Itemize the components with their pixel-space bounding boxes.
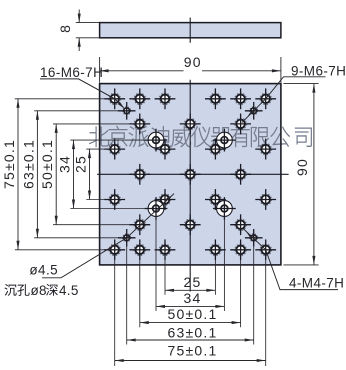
leader 4-M4-7H arrow — [246, 232, 253, 239]
leader 16-M6-7H line — [40, 79, 124, 108]
left dim 34 extension lines — [70, 139, 146, 141]
left dim 25 line — [89, 149, 91, 199]
plate front view border — [100, 84, 281, 265]
svg-text:ø8: ø8 — [31, 283, 47, 298]
bottom dim 75±0.1 line — [115, 360, 266, 362]
left dim 25 arrows — [88, 149, 91, 158]
top dim 90 line — [100, 70, 184, 72]
svg-text:50±0.1: 50±0.1 — [39, 139, 55, 189]
svg-text:34: 34 — [184, 290, 202, 306]
svg-text:4-M4-7H: 4-M4-7H — [289, 276, 344, 291]
counterbore hole ø4.5/ø8 (-17,17) — [148, 132, 164, 148]
svg-text:50±0.1: 50±0.1 — [168, 306, 218, 322]
M6 tapped hole (37.5,12.5) — [261, 145, 270, 154]
plate front view fill — [100, 84, 281, 265]
svg-text:25: 25 — [73, 155, 89, 173]
left dim 63±0.1 extension lines — [34, 110, 119, 112]
M6 tapped hole (-25,-25) — [136, 220, 145, 229]
svg-text:63±0.1: 63±0.1 — [168, 324, 218, 340]
svg-text:4.5: 4.5 — [59, 283, 79, 298]
right dim 90 arrows — [312, 84, 315, 93]
thickness dim 8 arrows — [78, 14, 81, 23]
M6 tapped hole (-37.5,37.5) — [110, 95, 119, 104]
M6 tapped hole (-37.5,-37.5) — [110, 246, 119, 255]
left dim 63±0.1 arrows — [36, 111, 39, 120]
watermark text 北京派迪威仪器有限公司 — [89, 126, 311, 147]
bottom dim 34 extension lines — [155, 220, 157, 311]
bottom dim 75±0.1 extension lines — [114, 260, 116, 366]
bottom dim 50±0.1 extension lines — [139, 260, 141, 327]
left dim 63±0.1 line — [36, 111, 38, 238]
M6 tapped hole (-12.5,37.5) — [161, 95, 170, 104]
thickness dim 8 extension lines — [76, 22, 100, 24]
bottom dim 50±0.1 line — [140, 322, 241, 324]
left dim 75±0.1 arrows — [16, 99, 19, 108]
M6 tapped hole (-25,37.5) — [136, 95, 145, 104]
M6 tapped hole (-25,0) — [136, 170, 145, 179]
M6 tapped hole (12.5,-37.5) — [211, 246, 220, 255]
leader 9-M6-7H line — [242, 77, 326, 123]
svg-text:75±0.1: 75±0.1 — [168, 343, 218, 359]
top dim 90 arrows — [100, 69, 109, 72]
left dim 25 extension lines — [86, 148, 107, 150]
M6 tapped hole (0,25) — [186, 120, 195, 129]
svg-text:9-M6-7H: 9-M6-7H — [291, 63, 346, 78]
M4 tapped hole (-31.5,31.5) — [124, 108, 130, 114]
svg-text:8: 8 — [57, 25, 73, 33]
leader counterbore note text 沉孔ø8深4.5 — [4, 283, 78, 298]
left dim 75±0.1 line — [17, 99, 19, 250]
svg-text:75±0.1: 75±0.1 — [1, 139, 17, 189]
leader counterbore arrow — [164, 196, 171, 203]
M6 tapped hole (-25,25) — [136, 120, 145, 129]
M6 tapped hole (-37.5,-12.5) — [110, 195, 119, 204]
M6 tapped hole (25,-37.5) — [236, 246, 245, 255]
M6 tapped hole (37.5,-12.5) — [261, 195, 270, 204]
M6 tapped hole (12.5,12.5) — [211, 145, 220, 154]
leader 9-M6-7H arrow — [248, 110, 255, 117]
horizontal centerline — [97, 173, 288, 175]
left dim 75±0.1 extension lines — [15, 98, 107, 100]
bottom dim 25 extension lines — [164, 260, 166, 295]
left dim 50±0.1 extension lines — [53, 123, 130, 125]
svg-text:90: 90 — [294, 158, 310, 176]
M6 tapped hole (12.5,-12.5) — [211, 195, 220, 204]
leader 16-M6-7H arrow — [118, 102, 125, 109]
left dim 34 arrows — [72, 140, 75, 149]
M6 tapped hole (25,0) — [236, 170, 245, 179]
M6 tapped hole (0,-25) — [186, 220, 195, 229]
M6 tapped hole (25,-25) — [236, 220, 245, 229]
M6 tapped hole (25,25) — [236, 120, 245, 129]
vertical centerline — [189, 80, 191, 292]
thickness dim 8 line — [78, 10, 80, 23]
leader counterbore line — [42, 194, 174, 278]
bottom dim 63±0.1 arrows — [127, 338, 136, 341]
counterbore hole ø4.5/ø8 (17,17) — [217, 132, 233, 148]
bottom dim 25 arrows — [165, 289, 174, 292]
M6 tapped hole (-37.5,12.5) — [110, 145, 119, 154]
counterbore hole ø4.5/ø8 (-17,-17) — [148, 201, 164, 217]
M6 tapped hole (-12.5,-12.5) — [161, 195, 170, 204]
bottom dim 34 arrows — [156, 305, 165, 308]
bottom dim 50±0.1 arrows — [140, 321, 149, 324]
M6 tapped hole (37.5,-37.5) — [261, 246, 270, 255]
M6 tapped hole (25,37.5) — [236, 95, 245, 104]
plate side view body — [100, 23, 281, 38]
M6 tapped hole (12.5,37.5) — [211, 95, 220, 104]
bottom dim 25 line — [165, 289, 215, 291]
bottom dim 75±0.1 arrows — [115, 359, 124, 362]
bottom dim 63±0.1 extension lines — [126, 247, 128, 345]
M4 tapped hole (-31.5,-31.5) — [124, 235, 130, 241]
svg-text:34: 34 — [57, 155, 73, 173]
M6 tapped hole (-12.5,-37.5) — [161, 246, 170, 255]
counterbore hole ø4.5/ø8 (17,-17) — [217, 201, 233, 217]
M4 tapped hole (31.5,31.5) — [251, 108, 257, 114]
right dim 90 extension lines — [283, 83, 318, 85]
svg-text:ø4.5: ø4.5 — [29, 263, 58, 278]
M6 tapped hole (0,0) — [186, 170, 195, 179]
svg-text:63±0.1: 63±0.1 — [20, 139, 36, 189]
M6 tapped hole (-25,-37.5) — [136, 246, 145, 255]
leader 4-M4-7H line — [243, 229, 338, 290]
M4 tapped hole (31.5,-31.5) — [251, 235, 257, 241]
M6 tapped hole (-12.5,12.5) — [161, 145, 170, 154]
right dim 90 line — [313, 84, 315, 265]
top dim 90 extension lines — [99, 57, 101, 83]
bottom dim 63±0.1 line — [127, 339, 254, 341]
side view centerline — [189, 18, 191, 43]
left dim 50±0.1 arrows — [55, 124, 58, 133]
left dim 50±0.1 line — [55, 124, 57, 225]
svg-text:25: 25 — [184, 274, 202, 290]
M6 tapped hole (37.5,37.5) — [261, 95, 270, 104]
left dim 34 line — [73, 140, 75, 208]
bottom dim 34 line — [156, 305, 224, 307]
svg-text:90: 90 — [184, 54, 202, 70]
svg-text:16-M6-7H: 16-M6-7H — [40, 65, 103, 80]
